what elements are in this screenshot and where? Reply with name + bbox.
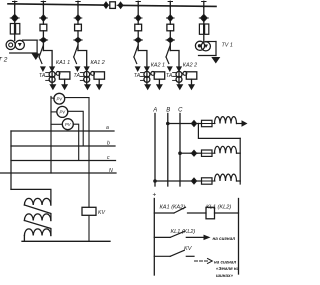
svg-text:b: b [107, 141, 110, 147]
svg-text:+: + [153, 192, 157, 199]
svg-text:ТА: ТА [39, 73, 46, 79]
svg-text:а: а [106, 125, 109, 131]
svg-text:KV: KV [184, 246, 193, 252]
svg-text:Т 2: Т 2 [0, 57, 8, 64]
svg-text:КА2 1: КА2 1 [151, 63, 165, 69]
svg-text:В: В [166, 108, 170, 114]
svg-text:КА2 2: КА2 2 [183, 63, 197, 69]
svg-text:N: N [109, 168, 113, 174]
svg-text:KL1 (KL2): KL1 (KL2) [206, 204, 231, 210]
svg-text:с: с [107, 155, 110, 161]
svg-text:KV: KV [98, 210, 105, 216]
svg-text:А: А [152, 108, 157, 114]
svg-text:С: С [178, 108, 183, 114]
svg-text:KL1 (KL2): KL1 (KL2) [171, 229, 196, 235]
svg-text:КА1 2: КА1 2 [91, 60, 105, 66]
svg-text:на сигнал: на сигнал [213, 236, 236, 241]
svg-text:ТА: ТА [134, 73, 141, 79]
svg-text:«Земля на: «Земля на [216, 266, 240, 271]
svg-text:КА1 1: КА1 1 [56, 60, 70, 66]
svg-text:ТА: ТА [74, 73, 81, 79]
svg-text:ТА: ТА [166, 73, 173, 79]
svg-text:шинах»: шинах» [216, 273, 233, 278]
svg-text:на сигнал: на сигнал [214, 259, 236, 264]
svg-text:КА1 (КА2): КА1 (КА2) [160, 204, 186, 210]
svg-text:ТV 1: ТV 1 [222, 42, 233, 48]
